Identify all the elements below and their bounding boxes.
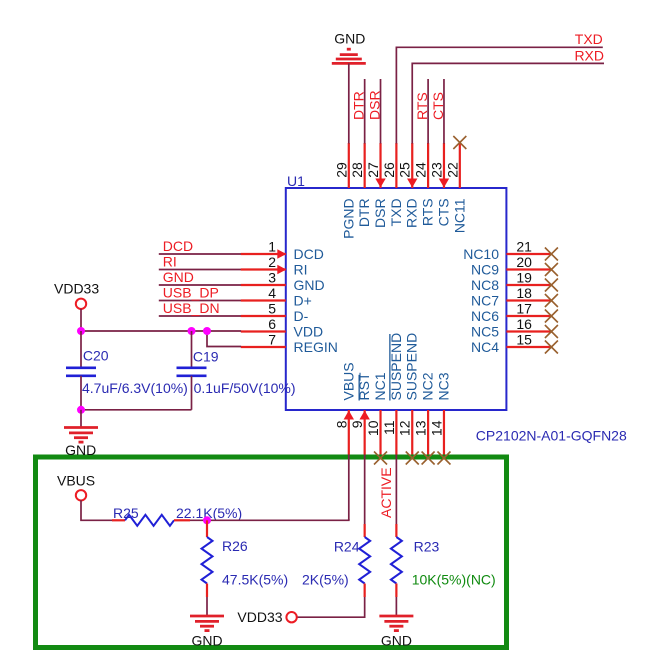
wire C19 bottom to C20 bottom: [81, 409, 192, 411]
pin 12 stub: [411, 410, 413, 455]
svg-text:USB_DN: USB_DN: [163, 300, 220, 316]
resistor R23 lead bottom: [395, 584, 397, 598]
svg-text:NC3: NC3: [435, 372, 451, 400]
svg-text:RTS: RTS: [414, 92, 430, 120]
svg-text:8: 8: [333, 420, 349, 428]
svg-text:RTS: RTS: [420, 198, 436, 226]
wire net USB_DN to pin 5: [159, 315, 241, 317]
svg-text:23: 23: [428, 162, 444, 178]
svg-text:20: 20: [516, 254, 532, 270]
pin 27 stub: [379, 143, 381, 188]
svg-text:21: 21: [516, 239, 532, 255]
pin 22 stub: [459, 143, 461, 188]
svg-text:DCD: DCD: [163, 238, 193, 254]
svg-text:NC1: NC1: [372, 372, 388, 400]
pin 21 stub: [506, 253, 551, 255]
pin 25 stub: [411, 143, 413, 188]
pin 8 stub: [348, 410, 350, 455]
pin 6 stub: [241, 330, 286, 332]
svg-text:R26: R26: [222, 538, 248, 554]
svg-text:VBUS: VBUS: [57, 473, 95, 489]
ground GND (top, PGND net): [332, 49, 366, 63]
wire PGND: [348, 63, 350, 143]
svg-text:DTR: DTR: [356, 198, 372, 227]
pin 17 stub: [506, 315, 551, 317]
svg-text:C20: C20: [83, 348, 109, 364]
svg-text:GND: GND: [334, 31, 365, 47]
wire RTS: [427, 79, 429, 144]
no-connect X pin 18: [545, 294, 558, 307]
svg-text:R24: R24: [334, 539, 360, 555]
wire SUSPEND pin11 to R23: [395, 455, 397, 525]
wire TXD: [396, 47, 602, 143]
overbar SUSPEND: [389, 334, 391, 401]
svg-text:18: 18: [516, 285, 532, 301]
green enclosure box: [36, 457, 507, 648]
no-connect X pin 21: [545, 248, 558, 261]
svg-text:DCD: DCD: [294, 246, 324, 262]
pin 18 stub: [506, 299, 551, 301]
overbar RST: [358, 375, 360, 401]
svg-text:RXD: RXD: [404, 198, 420, 228]
svg-text:7: 7: [268, 332, 276, 348]
svg-text:16: 16: [516, 316, 532, 332]
svg-text:R23: R23: [414, 539, 440, 555]
svg-text:24: 24: [413, 162, 429, 178]
wire DSR: [380, 79, 382, 144]
pin 19 stub: [506, 284, 551, 286]
svg-text:NC11: NC11: [451, 198, 467, 233]
svg-text:U1: U1: [287, 173, 305, 189]
no-connect X pin 10: [374, 452, 387, 465]
svg-text:29: 29: [333, 162, 349, 178]
pin 24 stub: [427, 143, 429, 188]
svg-text:17: 17: [516, 301, 532, 317]
resistor R24: [359, 537, 370, 584]
no-connect X pin 13: [422, 452, 435, 465]
pin 23 input arrow: [439, 179, 449, 188]
svg-text:22: 22: [444, 162, 460, 178]
pin 28 stub: [364, 143, 366, 188]
svg-text:RI: RI: [163, 254, 177, 270]
resistor R23: [391, 537, 402, 584]
pin 7 stub: [241, 346, 286, 348]
pin 1 stub: [241, 253, 286, 255]
capacitor C20 lead top: [80, 331, 82, 368]
svg-text:15: 15: [516, 332, 532, 348]
pin 4 stub: [241, 299, 286, 301]
svg-text:26: 26: [381, 162, 397, 178]
svg-text:11: 11: [381, 420, 397, 435]
pin 11 stub: [395, 410, 397, 455]
svg-text:CTS: CTS: [435, 198, 451, 226]
svg-text:3: 3: [268, 270, 276, 286]
wire R26 to ground: [206, 597, 208, 616]
wire VBUS pin8 down: [348, 455, 350, 521]
svg-text:4.7uF/6.3V(10%): 4.7uF/6.3V(10%): [82, 380, 188, 396]
svg-text:1: 1: [268, 239, 276, 255]
svg-text:10: 10: [365, 420, 381, 436]
pin 2 input arrow: [277, 265, 286, 275]
pin 13 stub: [427, 410, 429, 455]
junction node C19 top: [188, 327, 196, 335]
pin 9 input arrow: [359, 411, 369, 420]
svg-text:VBUS: VBUS: [340, 362, 356, 400]
wire RXD: [412, 63, 604, 143]
pin 5 stub: [241, 315, 286, 317]
no-connect X pin 16: [545, 325, 558, 338]
svg-text:DTR: DTR: [351, 91, 367, 120]
svg-text:CP2102N-A01-GQFN28: CP2102N-A01-GQFN28: [476, 427, 627, 443]
wire DTR: [364, 79, 366, 144]
wire C20 to ground: [80, 410, 82, 428]
svg-text:USB_DP: USB_DP: [163, 285, 219, 301]
svg-text:9: 9: [349, 420, 365, 428]
svg-text:47.5K(5%): 47.5K(5%): [222, 572, 288, 588]
svg-text:NC6: NC6: [471, 308, 499, 324]
ground GND under R26: [190, 616, 224, 631]
svg-text:GND: GND: [294, 277, 325, 293]
svg-text:TXD: TXD: [388, 198, 404, 226]
svg-text:GND: GND: [163, 269, 194, 285]
resistor R25 lead right: [174, 519, 190, 521]
svg-text:GND: GND: [381, 633, 412, 649]
svg-text:ACTIVE: ACTIVE: [378, 467, 394, 518]
svg-text:NC2: NC2: [420, 372, 436, 400]
wire VDD33 down: [80, 309, 82, 331]
svg-text:10K(5%)(NC): 10K(5%)(NC): [412, 572, 496, 588]
svg-text:12: 12: [397, 420, 413, 436]
svg-text:13: 13: [413, 420, 429, 436]
ground GND under C20: [64, 428, 98, 443]
svg-text:NC10: NC10: [463, 246, 499, 262]
capacitor C19 lead bottom: [191, 376, 193, 410]
svg-text:28: 28: [349, 162, 365, 178]
no-connect X pin 15: [545, 341, 558, 354]
svg-text:C19: C19: [193, 349, 219, 365]
svg-text:D-: D-: [294, 308, 309, 324]
pin 27 input arrow: [375, 179, 385, 188]
svg-text:19: 19: [516, 270, 532, 286]
svg-text:0.1uF/50V(10%): 0.1uF/50V(10%): [194, 380, 296, 396]
junction node R25/R26: [203, 516, 211, 524]
svg-text:2K(5%): 2K(5%): [302, 572, 349, 588]
pin 8 input arrow: [344, 411, 354, 420]
wire net USB_DP to pin 4: [159, 300, 241, 302]
svg-text:REGIN: REGIN: [294, 339, 338, 355]
resistor R24 lead bottom: [364, 584, 366, 598]
pin 3 stub: [241, 284, 286, 286]
svg-text:PGND: PGND: [340, 198, 356, 238]
svg-text:GND: GND: [65, 442, 96, 458]
svg-text:2: 2: [268, 254, 276, 270]
svg-text:R25: R25: [113, 505, 139, 521]
svg-text:NC8: NC8: [471, 277, 499, 293]
no-connect X pin 12: [406, 452, 419, 465]
capacitor C19: [177, 368, 207, 376]
wire net DCD to pin 1: [159, 253, 241, 255]
wire R23 to ground: [395, 597, 397, 616]
ground GND under R23: [379, 616, 413, 631]
wire branch to REGIN pin 7: [207, 331, 241, 347]
pin 29 stub: [348, 143, 350, 188]
svg-text:6: 6: [268, 316, 276, 332]
resistor R26: [202, 537, 213, 584]
pin 14 stub: [443, 410, 445, 455]
svg-text:DSR: DSR: [367, 90, 383, 120]
svg-text:DSR: DSR: [372, 198, 388, 228]
no-connect X pin 17: [545, 310, 558, 323]
svg-text:CTS: CTS: [430, 92, 446, 120]
svg-text:4: 4: [268, 285, 276, 301]
svg-text:TXD: TXD: [575, 31, 603, 47]
svg-text:RXD: RXD: [574, 47, 604, 63]
capacitor C20 lead bottom: [80, 376, 82, 410]
svg-text:NC4: NC4: [471, 339, 499, 355]
wire VBUS terminal down: [81, 500, 113, 520]
svg-text:14: 14: [428, 420, 444, 436]
svg-text:SUSPEND: SUSPEND: [404, 333, 420, 401]
wire net RI to pin 2: [159, 269, 241, 271]
terminal VBUS: [76, 490, 86, 500]
pin 26 stub: [395, 143, 397, 188]
svg-text:NC9: NC9: [471, 262, 499, 278]
wire junction to pin 8: [207, 519, 349, 520]
wire VDD33 rail to pin 6: [81, 330, 241, 332]
wire R25 to junction: [190, 519, 207, 521]
wire R24 to VDD33: [297, 597, 365, 617]
junction node C20 bottom: [77, 406, 85, 414]
wire CTS: [443, 79, 445, 144]
svg-text:VDD33: VDD33: [54, 281, 99, 297]
capacitor C19 lead top: [191, 331, 193, 368]
pin 20 stub: [506, 268, 551, 270]
pin 1 input arrow: [277, 249, 286, 259]
junction node VDD33/C20: [77, 327, 85, 335]
svg-text:VDD33: VDD33: [237, 609, 282, 625]
no-connect X pin 20: [545, 263, 558, 276]
resistor R23 lead top: [395, 524, 397, 537]
no-connect X pin 14: [437, 452, 450, 465]
svg-text:NC7: NC7: [471, 293, 499, 309]
resistor R26 lead bottom: [206, 584, 208, 598]
resistor R25: [125, 515, 174, 526]
resistor R25 lead left: [112, 519, 125, 521]
pin 15 stub: [506, 346, 551, 348]
pin 2 stub: [241, 268, 286, 270]
svg-text:D+: D+: [294, 293, 312, 309]
svg-text:25: 25: [397, 162, 413, 178]
pin 10 stub: [379, 410, 381, 455]
pin 23 stub: [443, 143, 445, 188]
no-connect X pin 19: [545, 279, 558, 292]
resistor R26 lead top: [206, 520, 208, 537]
svg-text:NC5: NC5: [471, 324, 499, 340]
svg-text:5: 5: [268, 301, 276, 317]
resistor R24 lead top: [364, 524, 366, 537]
pin 9 stub: [364, 410, 366, 455]
wire net GND to pin 3: [159, 284, 241, 286]
svg-text:VDD: VDD: [294, 324, 324, 340]
svg-text:RI: RI: [294, 262, 308, 278]
terminal VDD33 (top): [76, 299, 86, 309]
no-connect X pin 22: [453, 136, 466, 149]
pin 25 input arrow: [407, 179, 417, 188]
svg-text:GND: GND: [191, 633, 222, 649]
pin 16 stub: [506, 330, 551, 332]
terminal VDD33 (bottom): [286, 612, 296, 622]
junction node REGIN branch: [203, 327, 211, 335]
svg-text:27: 27: [365, 162, 381, 178]
wire RST pin9 to R24: [364, 455, 366, 525]
capacitor C20: [66, 368, 96, 376]
IC U1 CP2102N body: [286, 188, 507, 410]
